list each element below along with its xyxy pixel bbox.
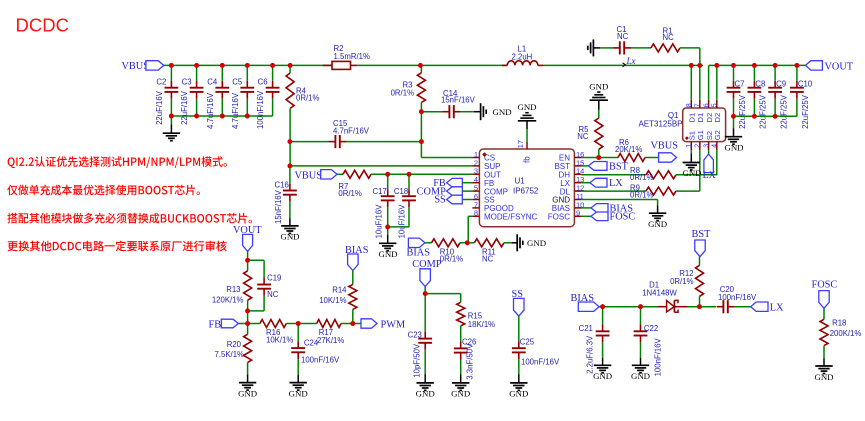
port LX at DH [581,178,623,189]
resistor R13 120K/1% [212,260,252,323]
resistor R11 NC [460,239,504,264]
svg-text:GND: GND [527,238,546,248]
svg-text:4.7uF/16V: 4.7uF/16V [206,92,215,129]
ground C24 [289,375,308,399]
svg-text:LX: LX [770,303,784,314]
svg-text:C22: C22 [644,324,658,333]
svg-text:C21: C21 [579,324,593,333]
svg-text:U1: U1 [515,177,526,186]
ground VOUT caps [724,116,743,152]
resistor R4 0R/1% [286,65,319,108]
title DCDC [16,15,69,36]
port BST top [692,229,712,257]
resistor R2 1.5mR current sense [323,44,370,69]
capacitor C16 15nF/16V [274,166,297,224]
svg-text:FOSC: FOSC [812,280,838,291]
wire MODE pin to R10 node [468,216,472,243]
svg-text:C24: C24 [304,339,319,348]
wire EN pin [581,157,618,159]
svg-text:15nF/16V: 15nF/16V [274,189,283,224]
svg-text:GND: GND [682,168,701,178]
svg-text:0R/1%: 0R/1% [630,173,653,182]
diode D1 1N4148W [642,281,688,313]
svg-text:R20: R20 [227,340,242,349]
capacitor C9 22uF/25V [768,65,788,128]
port BIAS at R14 [345,245,369,271]
ground Q1 S1 [682,150,701,178]
capacitor C20 100nF/16V [717,285,757,313]
svg-text:R13: R13 [226,285,240,294]
svg-text:7.5K/1%: 7.5K/1% [215,350,245,359]
ground input caps [163,116,180,141]
resistor R20 7.5K/1% [215,324,252,375]
junction dots on VBUS bus [169,63,293,68]
capacitor C10 22uF/25V [790,65,813,128]
ground C25 [509,375,528,399]
svg-text:GND: GND [289,388,308,398]
svg-text:GND: GND [509,389,528,399]
junction R10 R11 [465,240,470,245]
port SS down [512,289,525,316]
wire BIAS net [599,306,658,308]
svg-text:2: 2 [695,144,702,148]
transistor Q1 AET3125BP [638,100,725,150]
svg-text:20K/1%: 20K/1% [615,145,642,154]
note line 1 [8,156,227,168]
svg-text:10uF/16V: 10uF/16V [397,204,406,239]
svg-text:NC: NC [577,132,589,141]
svg-text:8: 8 [686,103,693,107]
svg-text:GND: GND [517,102,536,112]
svg-text:0R/1%: 0R/1% [440,255,463,264]
capacitor C15 4.7nF/16V [290,119,422,148]
svg-text:22uF/25V: 22uF/25V [801,94,810,129]
port COMP down [412,259,441,286]
svg-text:SS: SS [434,195,446,206]
svg-text:100nF/16V: 100nF/16V [301,355,340,364]
svg-text:22uF/25V: 22uF/25V [738,94,747,129]
ic U1 IP6752 [472,140,584,227]
ground R18 [814,359,833,383]
svg-text:FOSC: FOSC [548,213,570,222]
svg-text:0R/1%: 0R/1% [296,94,319,103]
ground C16 [280,202,299,242]
wire R8 to Q1 G2 [676,150,717,175]
svg-text:GND: GND [493,107,512,117]
svg-text:22uF/25V: 22uF/25V [759,94,768,129]
wire GND pin 11 [581,200,657,214]
wire R9 to Q1 G1 [676,150,700,191]
svg-text:C19: C19 [267,274,281,283]
capacitor C5 4.7uF/16V [231,65,254,129]
junction R12 bottom [697,304,702,309]
svg-text:GND: GND [593,371,612,381]
svg-text:0R/1%: 0R/1% [338,189,361,198]
svg-text:C9: C9 [776,80,786,89]
capacitor C1 NC [600,25,631,55]
svg-text:7: 7 [695,103,702,107]
svg-text:4.7uF/16V: 4.7uF/16V [231,92,240,129]
svg-text:22uF/16V: 22uF/16V [155,90,164,125]
port BST [581,161,628,172]
ground above R5 [589,81,608,118]
svg-text:C23: C23 [408,331,422,340]
capacitor C23 10pF/50V [408,294,433,378]
svg-text:GND: GND [814,372,833,382]
junction VOUT node [245,251,250,262]
svg-text:8: 8 [474,209,478,218]
wire L1 to Q1 D1 (net Lx) [543,64,703,66]
svg-text:0R/1%: 0R/1% [630,190,653,199]
net label Lx [623,56,636,67]
svg-text:DCDC: DCDC [16,15,69,36]
svg-text:fb: fb [523,156,532,163]
note line 2 [7,185,200,196]
ground sideways at R11 [504,234,546,251]
capacitor C24 100nF/16V [291,324,340,375]
port PWM [361,319,405,331]
ground C26 [451,375,470,399]
svg-text:VBUS: VBUS [122,61,150,72]
svg-text:10K/1%: 10K/1% [266,335,293,344]
resistor R10 0R/1% [425,239,463,264]
port FOSC down [812,280,838,309]
resistor R15 18K/1% [425,294,495,329]
capacitor C25 100nF/16V [512,316,560,374]
svg-text:0R/1%: 0R/1% [670,277,693,286]
inductor L1 2.2uH [502,45,543,66]
svg-text:10pF/50V: 10pF/50V [413,343,422,378]
ground C21 [593,358,612,381]
capacitor C2 22uF/16V [155,65,178,125]
port VOUT [805,61,853,73]
resistor R6 20K/1% [615,138,645,162]
svg-text:NC: NC [663,33,675,42]
junction dots VOUT bus capacitors [731,63,799,68]
svg-text:2.2uH: 2.2uH [512,53,533,62]
junction dots cap rail [169,114,250,119]
svg-text:200K/1%: 200K/1% [830,329,862,338]
svg-text:C25: C25 [520,337,535,346]
svg-text:PWM: PWM [381,319,406,330]
ground C23 [416,375,435,399]
svg-text:C18: C18 [394,187,408,196]
svg-text:22uF/25V: 22uF/25V [779,94,788,129]
svg-text:LX: LX [609,178,623,189]
junction COMP node [423,287,428,297]
svg-text:BIAS: BIAS [407,247,431,258]
wire SUP pin to R4 column [290,165,473,167]
svg-text:GND: GND [724,143,743,153]
junction C21 C22 taps [600,304,643,309]
svg-text:VBUS: VBUS [651,140,679,151]
junction R5 EN [596,155,601,160]
resistor R1 NC [631,27,680,52]
port FB [209,319,239,330]
resistor R16 10K/1% [260,320,317,345]
junction C17 C18 taps [385,172,411,177]
port LX bottom [751,302,784,314]
port BIAS at R10 [407,238,431,258]
svg-text:GND: GND [648,219,667,229]
capacitor C8 22uF/25V [748,65,768,128]
port FB [433,178,472,189]
port BIAS pin 10 [581,203,633,214]
wire VBUS bus to R2 [164,64,332,66]
port VBUS to OUT pin [295,170,338,182]
wire R2 to L1 [357,64,507,66]
capacitor C22 100nF/16V [634,307,663,377]
junction dots Q1 drain pins and R1 drop [689,63,719,68]
wire R3 down to CS [421,103,472,158]
wire Q1 top pins to buses [691,65,717,99]
junction FB dots [245,321,355,326]
ground above pin 17 [517,102,536,142]
svg-text:100nF/16V: 100nF/16V [718,293,757,302]
svg-text:100nF/16V: 100nF/16V [256,90,265,129]
resistor R3 0R/1% [391,65,426,102]
svg-text:FOSC: FOSC [610,212,636,223]
junction R13 bottom [245,309,250,314]
svg-text:Lx: Lx [626,56,636,66]
capacitor C18 10uF/16V [394,174,416,238]
svg-text:G1: G1 [696,130,705,140]
svg-text:C10: C10 [798,80,813,89]
svg-text:VOUT: VOUT [825,62,854,73]
junction R3 top [418,63,423,68]
svg-text:GND: GND [589,81,608,91]
svg-text:C16: C16 [275,181,289,190]
svg-text:15nF/16V: 15nF/16V [441,96,476,105]
svg-text:1N4148W: 1N4148W [642,289,677,298]
capacitor C7 22uF/25V [727,65,747,128]
wire R1 to Lx bus [680,48,700,66]
junction C14 and C15 taps [419,109,424,144]
svg-text:27K/1%: 27K/1% [317,336,344,345]
svg-text:10K/1%: 10K/1% [319,296,346,305]
capacitor C19 NC [248,260,282,311]
wire FB node [238,323,260,325]
resistor R9 0R/1% [581,183,676,199]
svg-text:3: 3 [703,144,710,148]
capacitor C3 22uF/16V [180,65,203,125]
svg-text:GND: GND [378,249,397,259]
svg-text:NC: NC [617,32,629,41]
port LX at Q1 S2 [703,150,716,181]
svg-text:C3: C3 [182,78,192,87]
resistor R7 0R/1% [337,170,371,198]
svg-text:2.2uF/6.3V: 2.2uF/6.3V [586,335,595,374]
svg-text:0R/1%: 0R/1% [391,89,414,98]
wire D1 to C20 [688,306,716,308]
svg-text:10uF/16V: 10uF/16V [374,204,383,239]
port VBUS input [122,61,164,72]
port FOSC pin 9 [581,212,635,223]
junction dots overlay [169,63,799,326]
capacitor C17 10uF/16V [373,174,395,238]
ground C22 [631,358,650,381]
port COMP [417,186,473,197]
resistor R17 27K/1% [317,320,361,345]
ground pin 11 [648,213,667,229]
svg-text:C8: C8 [755,80,765,89]
junction dots VOUT cap rail [731,114,777,119]
svg-text:D2: D2 [713,113,722,123]
wire R7 to OUT pin [371,173,472,175]
port VBUS at EN [645,140,678,162]
port BIAS bottom [571,293,600,311]
svg-text:C6: C6 [258,78,268,87]
svg-text:GND: GND [631,371,650,381]
svg-text:9: 9 [576,209,580,218]
wire C17 C18 bottom rail [388,226,409,228]
capacitor C26 3.3nF/50V [454,326,477,380]
svg-text:1: 1 [686,144,693,148]
port SS [434,195,472,206]
svg-text:R18: R18 [832,319,846,328]
note line 3 [7,213,251,224]
svg-text:C7: C7 [735,80,745,89]
svg-text:R14: R14 [332,286,347,295]
resistor R8 0R/1% [581,166,676,182]
svg-text:GND: GND [238,388,257,398]
svg-text:IP6752: IP6752 [513,187,539,196]
svg-text:FB: FB [209,319,222,330]
svg-text:C4: C4 [207,78,218,87]
capacitor C4 4.7uF/16V [206,65,229,129]
svg-text:120K/1%: 120K/1% [212,296,244,305]
resistor R14 10K/1% [319,271,357,324]
capacitor C6 100nF/16V [256,65,279,129]
svg-text:6: 6 [703,103,710,107]
wire input cap bottom rail [171,115,272,117]
ground C17 C18 [378,227,397,259]
svg-text:C2: C2 [156,78,166,87]
ground sideways at C1 [588,39,600,56]
port VOUT to feedback [233,225,262,251]
svg-text:17: 17 [516,140,525,148]
svg-text:C5: C5 [232,78,243,87]
svg-text:MODE/FSYNC: MODE/FSYNC [484,213,538,222]
resistor R18 200K/1% [820,308,861,358]
svg-text:5: 5 [712,103,719,107]
svg-text:4: 4 [712,144,719,148]
svg-text:18K/1%: 18K/1% [468,320,495,329]
svg-text:VBUS: VBUS [295,170,323,181]
svg-text:GND: GND [280,232,299,242]
svg-text:G2: G2 [713,130,722,140]
svg-text:C17: C17 [373,187,387,196]
svg-text:AET3125BP: AET3125BP [638,119,682,128]
svg-text:GND: GND [416,389,435,399]
capacitor C14 15nF/16V [421,89,480,118]
svg-text:100nF/16V: 100nF/16V [521,357,560,366]
svg-text:100nF/16V: 100nF/16V [653,337,662,376]
capacitor C21 2.2uF/6.3V [579,307,610,374]
wire Q1 D2 to VOUT bus [709,65,806,99]
svg-text:4.7nF/16V: 4.7nF/16V [333,126,370,135]
resistor R12 0R/1% [670,257,703,307]
svg-text:NC: NC [267,290,279,299]
svg-text:22uF/16V: 22uF/16V [180,90,189,125]
ground R20 [238,375,257,399]
svg-text:GND: GND [451,389,470,399]
svg-text:BST: BST [692,229,712,240]
junction C17 ground [385,225,390,230]
note line 4 [7,241,226,252]
resistor R5 NC [577,118,603,158]
ground sideways at C14 [481,103,512,120]
svg-text:BST: BST [609,161,629,172]
junction C15 left / SUP branch [288,139,293,168]
wire R4 to SUP node [289,108,291,165]
svg-text:NC: NC [482,255,494,264]
svg-text:LX: LX [703,170,716,181]
svg-text:1.5mR/1%: 1.5mR/1% [334,52,370,61]
svg-text:D1: D1 [696,113,705,123]
wire VOUT cap rail [734,115,797,117]
svg-text:3.3nF/50V: 3.3nF/50V [466,343,475,380]
